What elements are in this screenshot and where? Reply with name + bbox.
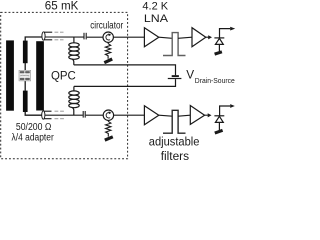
svg-text:65 mK: 65 mK <box>45 0 79 12</box>
svg-text:λ/4 adapter: λ/4 adapter <box>12 133 55 144</box>
svg-text:50/200 Ω: 50/200 Ω <box>16 122 52 133</box>
svg-text:QPC: QPC <box>51 69 76 83</box>
svg-text:adjustable: adjustable <box>149 135 200 149</box>
svg-text:V: V <box>186 68 194 82</box>
svg-text:filters: filters <box>161 149 189 162</box>
svg-text:circulator: circulator <box>90 20 124 31</box>
svg-text:4.2 K: 4.2 K <box>142 1 168 13</box>
svg-text:LNA: LNA <box>144 13 169 25</box>
svg-text:Drain-Source: Drain-Source <box>195 76 235 85</box>
